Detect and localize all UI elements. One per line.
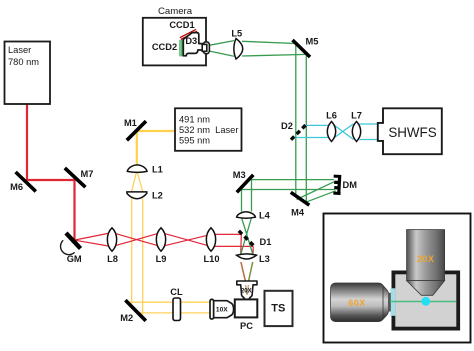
- laser 780 box: [5, 42, 51, 105]
- svg-text:L4: L4: [259, 211, 271, 221]
- wire red X L8 to L9: [112, 233, 161, 247]
- 10X objective: [210, 299, 234, 319]
- lens L9: [156, 228, 165, 251]
- galvo mirror GM: [66, 233, 81, 249]
- lens L3: [237, 254, 257, 259]
- wire cyan X L6 to L7: [335, 124, 354, 140]
- inset green beam: [390, 301, 456, 303]
- mirror M6: [16, 172, 36, 191]
- wire yellow horizontals M2 to 10X: [128, 302, 210, 313]
- svg-text:L8: L8: [107, 254, 118, 264]
- svg-text:M1: M1: [124, 118, 137, 128]
- svg-text:L5: L5: [231, 29, 242, 39]
- lens L2: [127, 192, 147, 199]
- svg-text:GM: GM: [67, 254, 82, 264]
- lens L1: [127, 165, 147, 173]
- mirror M5: [293, 40, 311, 57]
- inset window glass: [390, 288, 395, 316]
- svg-text:TS: TS: [271, 302, 285, 314]
- mirror M2: [125, 300, 145, 321]
- svg-text:20X: 20X: [417, 254, 435, 264]
- dichroic D2 dashed: [291, 123, 308, 140]
- svg-text:780 nm: 780 nm: [8, 57, 39, 67]
- wire red X L9 to L10: [161, 233, 211, 247]
- svg-text:L2: L2: [152, 191, 163, 201]
- D3 lens tube: [203, 42, 209, 54]
- wire yellow verticals L2 to M2: [132, 199, 143, 315]
- svg-text:L3: L3: [259, 254, 270, 264]
- inset focus dot: [421, 297, 430, 306]
- svg-text:M5: M5: [306, 37, 319, 47]
- svg-text:PC: PC: [240, 321, 253, 331]
- deformable mirror DM: [333, 175, 342, 195]
- svg-text:595 nm: 595 nm: [179, 136, 210, 146]
- wire green X L4 to L3: [241, 218, 253, 255]
- CCD1 red sensor mark: [180, 29, 197, 39]
- wire red D1 down to L3: [241, 234, 254, 254]
- camera box: [143, 18, 206, 66]
- lens L4: [237, 212, 256, 219]
- wire green L5 to M5: [242, 41, 307, 56]
- svg-text:D3: D3: [185, 36, 197, 46]
- svg-text:M4: M4: [291, 208, 305, 218]
- lens L8: [107, 228, 116, 251]
- mirror M7: [65, 168, 86, 187]
- wire yellow beam laser box to M1: [136, 130, 175, 132]
- svg-text:L10: L10: [203, 254, 219, 264]
- lens L6: [327, 122, 335, 142]
- svg-text:Camera: Camera: [158, 6, 193, 17]
- svg-text:M2: M2: [120, 313, 133, 323]
- svg-text:CL: CL: [170, 287, 183, 297]
- wire yellow beam M1 to L1: [136, 132, 138, 167]
- PC box: [235, 299, 257, 317]
- wire red horizontals L10 to D1: [211, 234, 253, 246]
- wire red fan GM to L8: [76, 233, 113, 247]
- svg-text:M6: M6: [10, 182, 23, 192]
- cylindrical lens CL: [173, 298, 181, 321]
- svg-text:L9: L9: [156, 254, 167, 264]
- svg-text:L7: L7: [351, 110, 362, 120]
- lens L7: [352, 122, 360, 142]
- wire green camera to L5: [209, 41, 234, 57]
- svg-text:10X: 10X: [216, 307, 228, 314]
- svg-text:D2: D2: [281, 121, 293, 131]
- wire green M3 to L4: [242, 177, 252, 212]
- wire green DM to M3: [240, 180, 335, 190]
- inset 20X objective body: [407, 230, 445, 296]
- svg-text:DM: DM: [343, 180, 358, 190]
- svg-text:M7: M7: [81, 169, 94, 179]
- dichroic D1 dashed: [239, 231, 255, 247]
- svg-text:SHWFS: SHWFS: [388, 125, 436, 140]
- multiline laser box 491/532/595: [175, 108, 242, 151]
- wire green M4 to DM: [297, 182, 336, 203]
- D3 splitter body: [183, 33, 202, 56]
- wire yellow V L1 to L2: [132, 171, 143, 192]
- wire red beam laser to M6: [26, 105, 28, 181]
- lens L10: [206, 228, 215, 251]
- SHWFS box: [378, 108, 442, 154]
- svg-text:Laser: Laser: [8, 45, 31, 55]
- svg-text:L1: L1: [152, 165, 163, 175]
- wire cyan L7 to SHWFS: [360, 124, 379, 140]
- wire red beam M7 to GM: [73, 179, 75, 241]
- CCD2 green sensor mark: [180, 40, 182, 56]
- lens L5: [234, 39, 243, 60]
- svg-text:20X: 20X: [241, 289, 252, 295]
- mirror M1: [127, 121, 146, 140]
- svg-text:CCD2: CCD2: [152, 42, 177, 52]
- wire green verticals M5 to M4 through D2: [296, 44, 307, 203]
- svg-text:L6: L6: [326, 110, 337, 120]
- wire red beam M6 to M7: [26, 179, 76, 181]
- svg-text:D1: D1: [260, 237, 272, 247]
- svg-text:491 nm: 491 nm: [179, 115, 210, 125]
- svg-text:60X: 60X: [348, 298, 366, 308]
- svg-text:532 nm Laser: 532 nm Laser: [179, 125, 238, 135]
- inset 60X objective body: [331, 283, 391, 322]
- TS box: [265, 291, 293, 326]
- mirror M4: [291, 192, 310, 205]
- mirror M3: [237, 175, 254, 193]
- wire green L3 to 20X objective: [249, 262, 253, 281]
- wire red L3 to 20X objective: [241, 262, 246, 281]
- inset sample chamber: [393, 272, 458, 328]
- inset frame: [324, 214, 471, 343]
- svg-text:CCD1: CCD1: [169, 20, 194, 30]
- svg-text:M3: M3: [233, 170, 246, 180]
- 20X objective: [237, 281, 257, 300]
- wire cyan D2 to L6: [293, 125, 329, 137]
- GM rotation arc: [61, 240, 75, 254]
